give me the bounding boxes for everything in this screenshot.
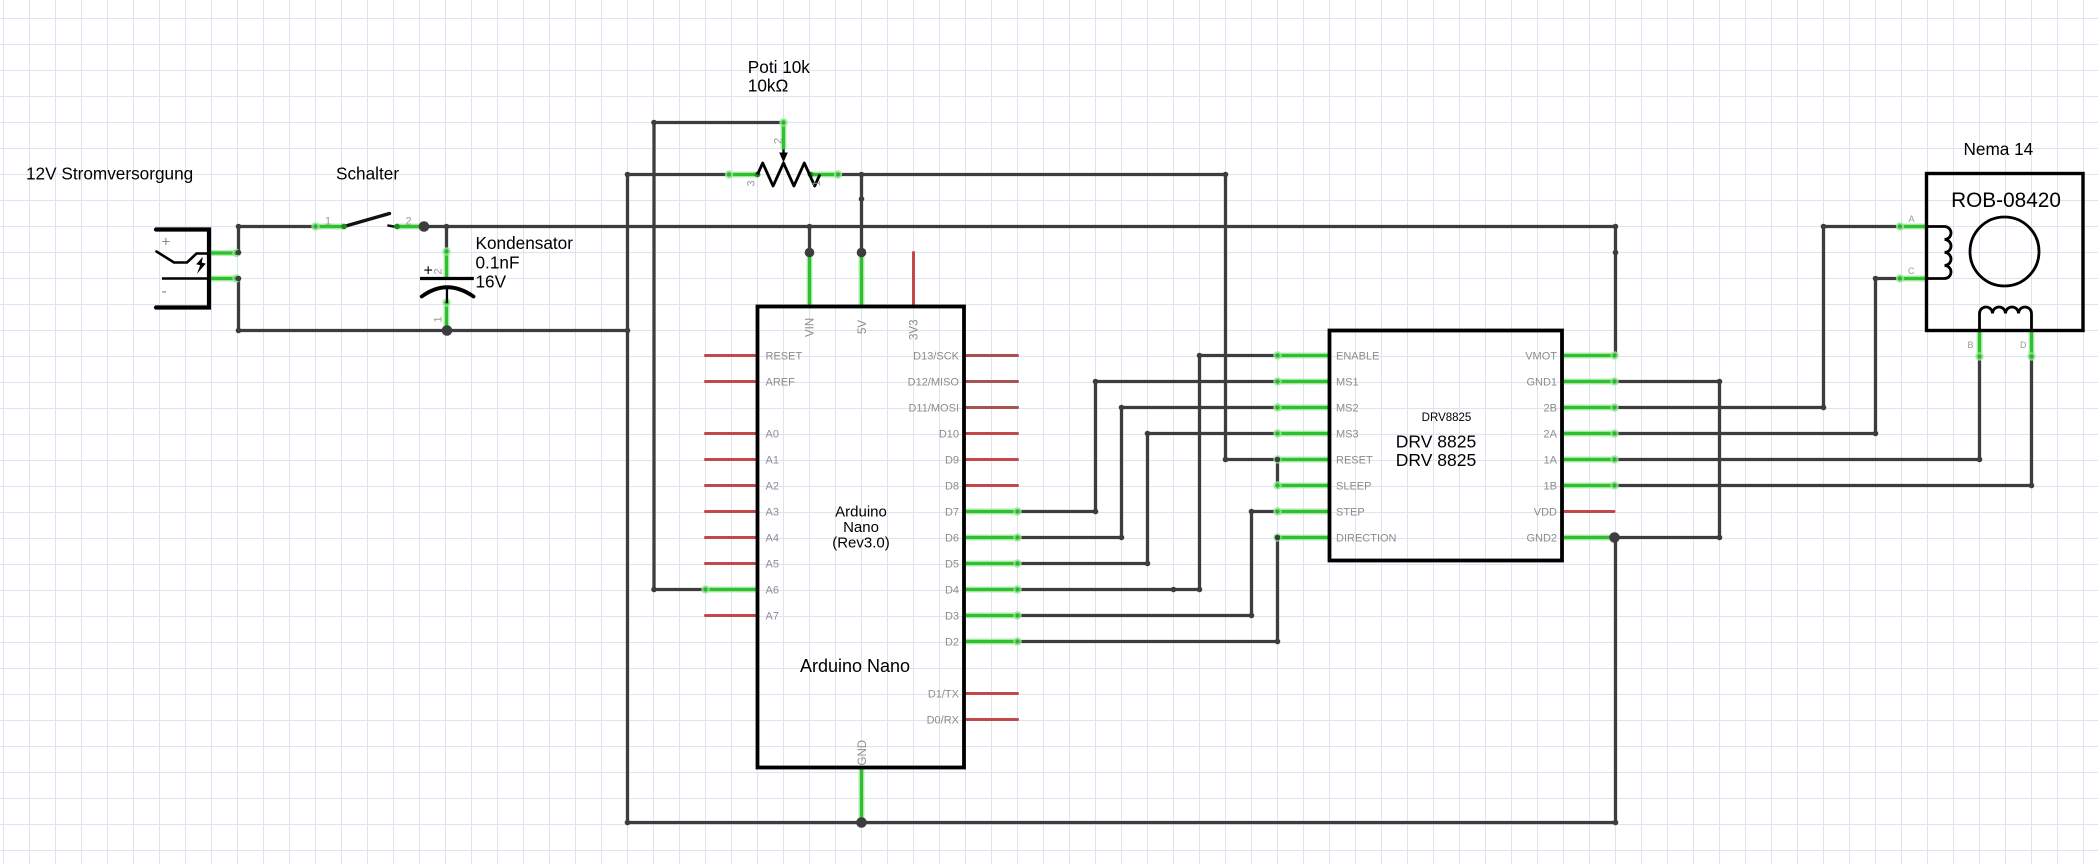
svg-text:A0: A0 (766, 429, 779, 441)
svg-text:D6: D6 (945, 533, 959, 545)
svg-text:1: 1 (325, 216, 331, 228)
svg-text:D11/MOSI: D11/MOSI (908, 403, 959, 415)
svg-text:1A: 1A (1544, 455, 1558, 467)
svg-text:D3: D3 (945, 611, 959, 623)
svg-text:2: 2 (405, 216, 411, 228)
svg-text:MS3: MS3 (1336, 429, 1359, 441)
svg-text:D2: D2 (945, 637, 959, 649)
svg-text:D: D (2020, 340, 2027, 350)
svg-text:+: + (424, 263, 433, 280)
svg-text:DRV8825: DRV8825 (1422, 412, 1472, 424)
svg-text:Poti 10k: Poti 10k (748, 57, 811, 77)
svg-text:Nano: Nano (843, 519, 879, 536)
svg-text:DIRECTION: DIRECTION (1336, 533, 1397, 545)
svg-text:DRV 8825: DRV 8825 (1396, 450, 1476, 470)
svg-text:A4: A4 (766, 533, 779, 545)
svg-text:D7: D7 (945, 507, 959, 519)
svg-text:2A: 2A (1544, 429, 1558, 441)
svg-text:A3: A3 (766, 507, 779, 519)
svg-text:5V: 5V (857, 320, 869, 334)
svg-text:16V: 16V (476, 272, 507, 292)
svg-text:Nema 14: Nema 14 (1964, 139, 2034, 159)
svg-text:3V3: 3V3 (909, 320, 921, 340)
svg-text:MS2: MS2 (1336, 403, 1359, 415)
svg-text:A6: A6 (766, 585, 779, 597)
svg-text:Arduino: Arduino (835, 504, 887, 521)
svg-text:MS1: MS1 (1336, 377, 1359, 389)
svg-text:D13/SCK: D13/SCK (913, 351, 960, 363)
svg-text:VDD: VDD (1534, 507, 1557, 519)
svg-text:D9: D9 (945, 455, 959, 467)
svg-text:RESET: RESET (766, 351, 803, 363)
svg-text:D5: D5 (945, 559, 959, 571)
svg-text:A5: A5 (766, 559, 779, 571)
svg-text:D12/MISO: D12/MISO (908, 377, 960, 389)
svg-text:RESET: RESET (1336, 455, 1373, 467)
svg-text:A7: A7 (766, 611, 779, 623)
svg-text:GND1: GND1 (1526, 377, 1557, 389)
svg-text:12V Stromversorgung: 12V Stromversorgung (26, 164, 193, 184)
svg-text:3: 3 (746, 180, 758, 186)
svg-text:-: - (162, 283, 167, 300)
svg-text:A1: A1 (766, 455, 779, 467)
svg-text:+: + (162, 234, 171, 251)
svg-text:D10: D10 (939, 429, 959, 441)
svg-text:A2: A2 (766, 481, 779, 493)
svg-text:ENABLE: ENABLE (1336, 351, 1379, 363)
svg-text:0.1nF: 0.1nF (476, 252, 520, 272)
svg-text:2: 2 (433, 268, 445, 274)
svg-text:10kΩ: 10kΩ (748, 75, 789, 95)
svg-text:ROB-08420: ROB-08420 (1951, 189, 2061, 212)
svg-text:A: A (1908, 214, 1914, 224)
svg-text:Schalter: Schalter (336, 164, 399, 184)
svg-text:DRV 8825: DRV 8825 (1396, 432, 1476, 452)
svg-text:1: 1 (433, 316, 445, 322)
svg-text:2: 2 (773, 138, 785, 144)
svg-text:GND: GND (857, 740, 869, 766)
svg-text:D0/RX: D0/RX (927, 715, 960, 727)
svg-text:Kondensator: Kondensator (476, 233, 574, 253)
svg-text:AREF: AREF (766, 377, 796, 389)
svg-text:2B: 2B (1544, 403, 1557, 415)
svg-text:B: B (1967, 340, 1973, 350)
svg-text:1: 1 (811, 180, 823, 186)
svg-text:C: C (1908, 266, 1915, 276)
svg-text:Arduino Nano: Arduino Nano (800, 656, 910, 676)
svg-text:D1/TX: D1/TX (928, 689, 960, 701)
svg-text:VMOT: VMOT (1525, 351, 1557, 363)
svg-text:D8: D8 (945, 481, 959, 493)
svg-text:VIN: VIN (805, 318, 817, 337)
svg-text:STEP: STEP (1336, 507, 1365, 519)
svg-text:SLEEP: SLEEP (1336, 481, 1371, 493)
svg-text:D4: D4 (945, 585, 959, 597)
svg-text:(Rev3.0): (Rev3.0) (832, 535, 890, 552)
svg-text:1B: 1B (1544, 481, 1557, 493)
svg-text:GND2: GND2 (1526, 533, 1557, 545)
